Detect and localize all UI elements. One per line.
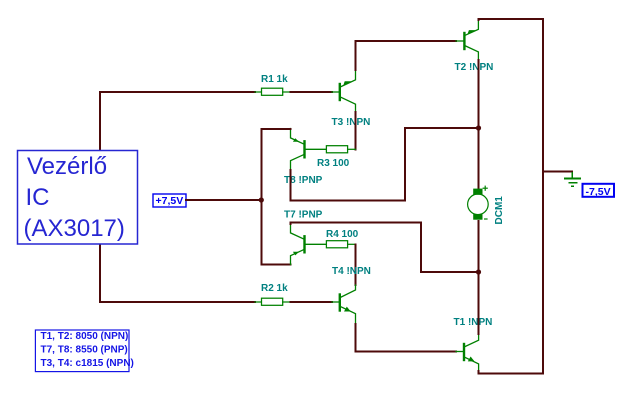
node junction dot motor top	[476, 125, 481, 130]
wire R2 to T4 base	[291, 301, 333, 303]
svg-text:T1 !NPN: T1 !NPN	[454, 317, 493, 328]
wire T2 emitter to right rail	[478, 19, 543, 20]
wire +7.5V rail	[261, 129, 290, 265]
svg-text:Vezérlő: Vezérlő	[27, 153, 107, 180]
svg-text:R2 1k: R2 1k	[261, 283, 288, 294]
svg-text:+7,5V: +7,5V	[156, 195, 184, 207]
transistor T2	[456, 22, 478, 61]
wire T3 emitter to T2 base	[356, 41, 457, 70]
wire T7 collector to motor bottom node	[291, 223, 479, 273]
power source +7,5V	[153, 194, 186, 207]
ground	[565, 173, 580, 186]
power source -7,5V	[583, 184, 615, 198]
wire T3 collector to R3	[355, 112, 357, 149]
wire T1 collector to motor bottom node	[478, 272, 480, 334]
wire T2 collector to motor	[477, 60, 479, 188]
wire T8 collector to motor top node	[291, 128, 479, 200]
svg-text:T1, T2: 8050 (NPN): T1, T2: 8050 (NPN)	[41, 331, 129, 342]
svg-text:T7, T8: 8550 (PNP): T7, T8: 8550 (PNP)	[41, 345, 128, 356]
svg-text:IC: IC	[26, 184, 50, 211]
svg-text:DCM1: DCM1	[494, 196, 505, 225]
svg-text:T3, T4: c1815 (NPN): T3, T4: c1815 (NPN)	[41, 358, 134, 369]
node junction dot +7,5V	[259, 197, 264, 202]
svg-text:-7,5V: -7,5V	[586, 186, 611, 198]
resistor R4	[326, 241, 355, 248]
svg-text:T7 !PNP: T7 !PNP	[284, 210, 323, 221]
wire right rail	[542, 19, 544, 373]
note box transistor types	[35, 330, 133, 372]
wire T4 emitter to T1 base	[356, 324, 457, 352]
transistor T1	[456, 334, 479, 371]
resistor R2	[255, 298, 291, 305]
wire R4 to T4 collector	[355, 244, 357, 285]
ground wire tap	[543, 171, 572, 173]
transistor T8	[291, 129, 327, 171]
svg-text:R3 100: R3 100	[317, 158, 350, 169]
wire +7,5V to junction	[186, 199, 261, 201]
motor DCM1	[468, 186, 489, 220]
wire IC top pin to R1	[100, 92, 255, 150]
wire motor to bottom node	[477, 221, 479, 272]
svg-text:T3 !NPN: T3 !NPN	[332, 117, 371, 128]
resistor R1	[255, 88, 291, 95]
svg-text:R1 1k: R1 1k	[261, 74, 288, 85]
transistor T3	[332, 70, 356, 112]
svg-text:T4 !NPN: T4 !NPN	[332, 266, 371, 277]
wire IC bottom pin to R2	[100, 245, 255, 302]
wire R1 to T3 base	[291, 91, 333, 93]
svg-text:T2 !NPN: T2 !NPN	[455, 62, 494, 73]
IC U1 Vezerlo box	[18, 151, 138, 245]
svg-text:(AX3017): (AX3017)	[24, 215, 125, 242]
wire T1 emitter to bottom rail	[479, 371, 543, 373]
node junction dot motor bottom	[476, 269, 481, 274]
resistor R3	[326, 146, 355, 153]
transistor T7	[291, 223, 327, 265]
svg-text:R4 100: R4 100	[326, 229, 359, 240]
transistor T4	[332, 285, 356, 324]
